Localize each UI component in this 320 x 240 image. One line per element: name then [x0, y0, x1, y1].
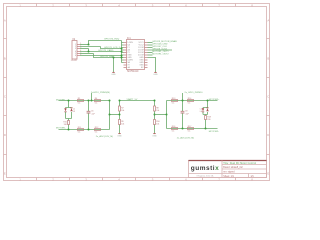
ground GND1: [111, 72, 116, 76]
junction stub left: [91, 100, 93, 102]
wire left block right edge: [109, 101, 111, 130]
IC1 pin names left: [127, 42, 133, 69]
wire right block left edge: [166, 101, 168, 129]
junction bus d: [121, 55, 123, 57]
wire mid tap left: [110, 114, 120, 116]
IC1 right pins: [145, 43, 148, 68]
svg-text:R12: R12: [95, 127, 98, 129]
junction column2 mid: [154, 114, 156, 116]
resistor R14: [188, 98, 194, 105]
svg-text:C8: C8: [185, 110, 187, 112]
wire input bus: [121, 41, 123, 63]
wire jog pin5 row4: [94, 54, 122, 58]
svg-text:0.1: 0.1: [78, 132, 81, 134]
LED D1: [64, 108, 66, 112]
resistor R9: [119, 120, 121, 125]
resistor R6: [95, 98, 101, 105]
junction C8 top: [182, 100, 184, 102]
resistor R15: [68, 121, 70, 125]
wire IC1 row1: [148, 42, 153, 44]
svg-text:10k: 10k: [156, 110, 159, 112]
svg-text:6: 6: [75, 55, 76, 57]
svg-text:MOTOR1_OUT2: MOTOR1_OUT2: [152, 54, 169, 56]
svg-text:2x_GPIO_PWM10: 2x_GPIO_PWM10: [185, 92, 204, 94]
wire pin1: [80, 44, 89, 46]
IC IC1: [127, 40, 145, 70]
junction bus e: [121, 57, 123, 59]
LED D4: [206, 108, 208, 112]
svg-text:SN754410: SN754410: [127, 70, 139, 73]
junction C6 top: [88, 100, 90, 102]
resistor R17: [188, 126, 194, 133]
divider column 2 wire: [154, 101, 156, 134]
junction C6 bottom: [88, 129, 90, 131]
svg-text:L1: L1: [73, 109, 75, 111]
wire bus links to IC pins: [122, 43, 124, 63]
svg-text:0.1: 0.1: [172, 131, 175, 133]
wire IC1 row3: [148, 47, 153, 49]
svg-text:330: 330: [207, 119, 210, 121]
svg-text:0.1: 0.1: [95, 103, 98, 105]
ground GND2: [153, 72, 158, 76]
junction C8 bottom: [182, 128, 184, 130]
svg-text:0.1: 0.1: [188, 103, 191, 105]
svg-text:rev: signed: rev: signed: [223, 171, 235, 174]
svg-text:R16: R16: [172, 126, 175, 128]
IC1 left pins: [124, 43, 127, 68]
wire to GND1: [113, 58, 115, 73]
svg-text:B: B: [4, 57, 6, 61]
svg-text:10k: 10k: [121, 110, 124, 112]
wire jog pin3: [88, 49, 90, 52]
svg-text:0.1: 0.1: [188, 131, 191, 133]
svg-text:2x_ADC(1.8V_M): 2x_ADC(1.8V_M): [177, 136, 194, 139]
svg-text:GPIO71_LCD_D: GPIO71_LCD_D: [104, 47, 121, 49]
svg-text:E: E: [267, 172, 269, 176]
junction LED-left top: [68, 100, 70, 102]
wire top rail link: [120, 100, 155, 102]
resistor R18: [205, 116, 207, 120]
svg-text:10k: 10k: [156, 123, 159, 125]
wire pin3: [80, 48, 89, 50]
wire pin4: [80, 51, 122, 53]
svg-text:R14: R14: [188, 98, 191, 100]
connector X2 pin names: [75, 44, 76, 57]
svg-text:A: A: [4, 19, 6, 23]
wire IC1 row5: [148, 52, 153, 54]
capacitor C8: [181, 111, 185, 113]
junction left edge top: [109, 100, 111, 102]
svg-text:0.1: 0.1: [95, 132, 98, 134]
resistor R8: [154, 106, 156, 111]
svg-text:L2: L2: [200, 109, 202, 111]
junction column1 mid: [119, 114, 121, 116]
svg-text:VBATT_5V: VBATT_5V: [127, 98, 138, 101]
LED D3: [70, 108, 72, 112]
wire stub PWM left: [91, 93, 93, 101]
svg-text:GPIO170_HDQ: GPIO170_HDQ: [104, 39, 119, 41]
svg-text:2xGPIO_PWM1(M): 2xGPIO_PWM1(M): [91, 92, 110, 94]
junction mid left: [109, 114, 111, 116]
svg-text:GND: GND: [153, 74, 158, 76]
junction 88.5,51.5: [88, 51, 90, 53]
wire capacitor C8 leads: [182, 93, 184, 129]
svg-text:B: B: [267, 57, 269, 61]
wire mid tap right: [155, 114, 167, 116]
svg-text:MOTOR2+: MOTOR2+: [209, 99, 220, 101]
svg-text:D: D: [4, 133, 6, 137]
connector X2: [72, 41, 77, 60]
resistor R13: [172, 98, 178, 105]
svg-text:2x_ADC(1.8V_M): 2x_ADC(1.8V_M): [96, 135, 113, 138]
svg-text:A: A: [267, 19, 269, 23]
svg-text:MOTOR2-: MOTOR2-: [209, 131, 219, 133]
wire IC1 row2: [148, 44, 153, 46]
svg-text:3: 3: [75, 48, 76, 50]
svg-text:R11: R11: [78, 127, 81, 129]
resistor R10: [154, 120, 156, 125]
svg-text:R17: R17: [188, 126, 191, 128]
resistor R11: [78, 127, 84, 134]
svg-text:GND: GND: [117, 135, 122, 137]
wire IC1 row6: [148, 54, 153, 56]
junction right block mid: [166, 114, 168, 116]
svg-text:10k: 10k: [121, 123, 124, 125]
wire pin5: [80, 53, 94, 55]
svg-text:gumstix: gumstix: [191, 165, 219, 172]
junction 88.5,44.5: [88, 44, 90, 46]
title block: [189, 161, 267, 178]
svg-text:8 Saginaw, Irvine CA: 8 Saginaw, Irvine CA: [197, 174, 214, 177]
IC1 pin names right: [138, 42, 144, 69]
wire top rail left: [59, 100, 110, 102]
svg-text:R6: R6: [95, 98, 97, 100]
svg-text:Board: tobias5_r42: Board: tobias5_r42: [223, 166, 243, 169]
junction bus c: [121, 51, 123, 53]
junction column 2 top: [154, 100, 156, 102]
resistor R5: [78, 98, 84, 105]
svg-text:C: C: [4, 95, 6, 99]
resistor R7: [119, 106, 121, 111]
wire jog pin2 row2: [101, 47, 122, 49]
wire capacitor C6 leads: [88, 101, 90, 130]
connector X2 pins 1-6: [77, 45, 80, 56]
connector X2 pin numbers: [80, 43, 81, 56]
ground GND column 1: [117, 134, 122, 138]
svg-text:330: 330: [64, 124, 67, 126]
wire LED branch left: [66, 101, 72, 130]
svg-text:Title: Dual DC Motor Control: Title: Dual DC Motor Control: [223, 162, 256, 165]
svg-text:D: D: [267, 133, 269, 137]
resistor R16: [172, 126, 178, 133]
wire LED branch right: [203, 101, 208, 129]
junction LED-left bottom: [68, 129, 70, 131]
capacitor C6: [87, 111, 91, 113]
svg-text:C6: C6: [91, 110, 93, 112]
junction LED-right bottom: [205, 128, 207, 130]
junction LED-right top: [207, 100, 209, 102]
svg-text:C: C: [267, 95, 269, 99]
svg-text:GPIO73_CARD: GPIO73_CARD: [98, 49, 114, 52]
svg-text:L3: L3: [73, 111, 75, 113]
svg-text:E: E: [4, 172, 6, 176]
svg-text:R13: R13: [172, 98, 175, 100]
junction 113.5,57.5: [113, 57, 115, 59]
svg-text:22-057: 22-057: [71, 60, 78, 62]
divider column 1 wire: [119, 101, 121, 134]
wire IC1 gnd to GND2: [148, 58, 156, 73]
resistor R12: [95, 127, 101, 134]
svg-text:IC1: IC1: [127, 37, 131, 40]
wire top rail right: [167, 100, 218, 102]
wire pin2: [80, 46, 101, 48]
wire bottom left: [59, 129, 110, 131]
svg-text:GND: GND: [111, 74, 116, 76]
svg-text:GND: GND: [152, 135, 157, 137]
svg-text:0.1: 0.1: [78, 103, 81, 105]
svg-text:L4: L4: [200, 111, 202, 113]
wire bottom right: [167, 128, 218, 130]
svg-text:R5: R5: [78, 98, 80, 100]
junction column 1 top: [119, 100, 121, 102]
junction bus b: [121, 48, 123, 50]
wire row1 upper: [89, 41, 122, 45]
wire pin6: [80, 55, 122, 57]
svg-text:Sheet: 1/1: Sheet: 1/1: [223, 175, 234, 178]
LED D2: [202, 108, 204, 112]
wire IC1 row4 long: [148, 49, 173, 51]
svg-text:0.1: 0.1: [172, 103, 175, 105]
ground GND column 2: [152, 134, 157, 138]
